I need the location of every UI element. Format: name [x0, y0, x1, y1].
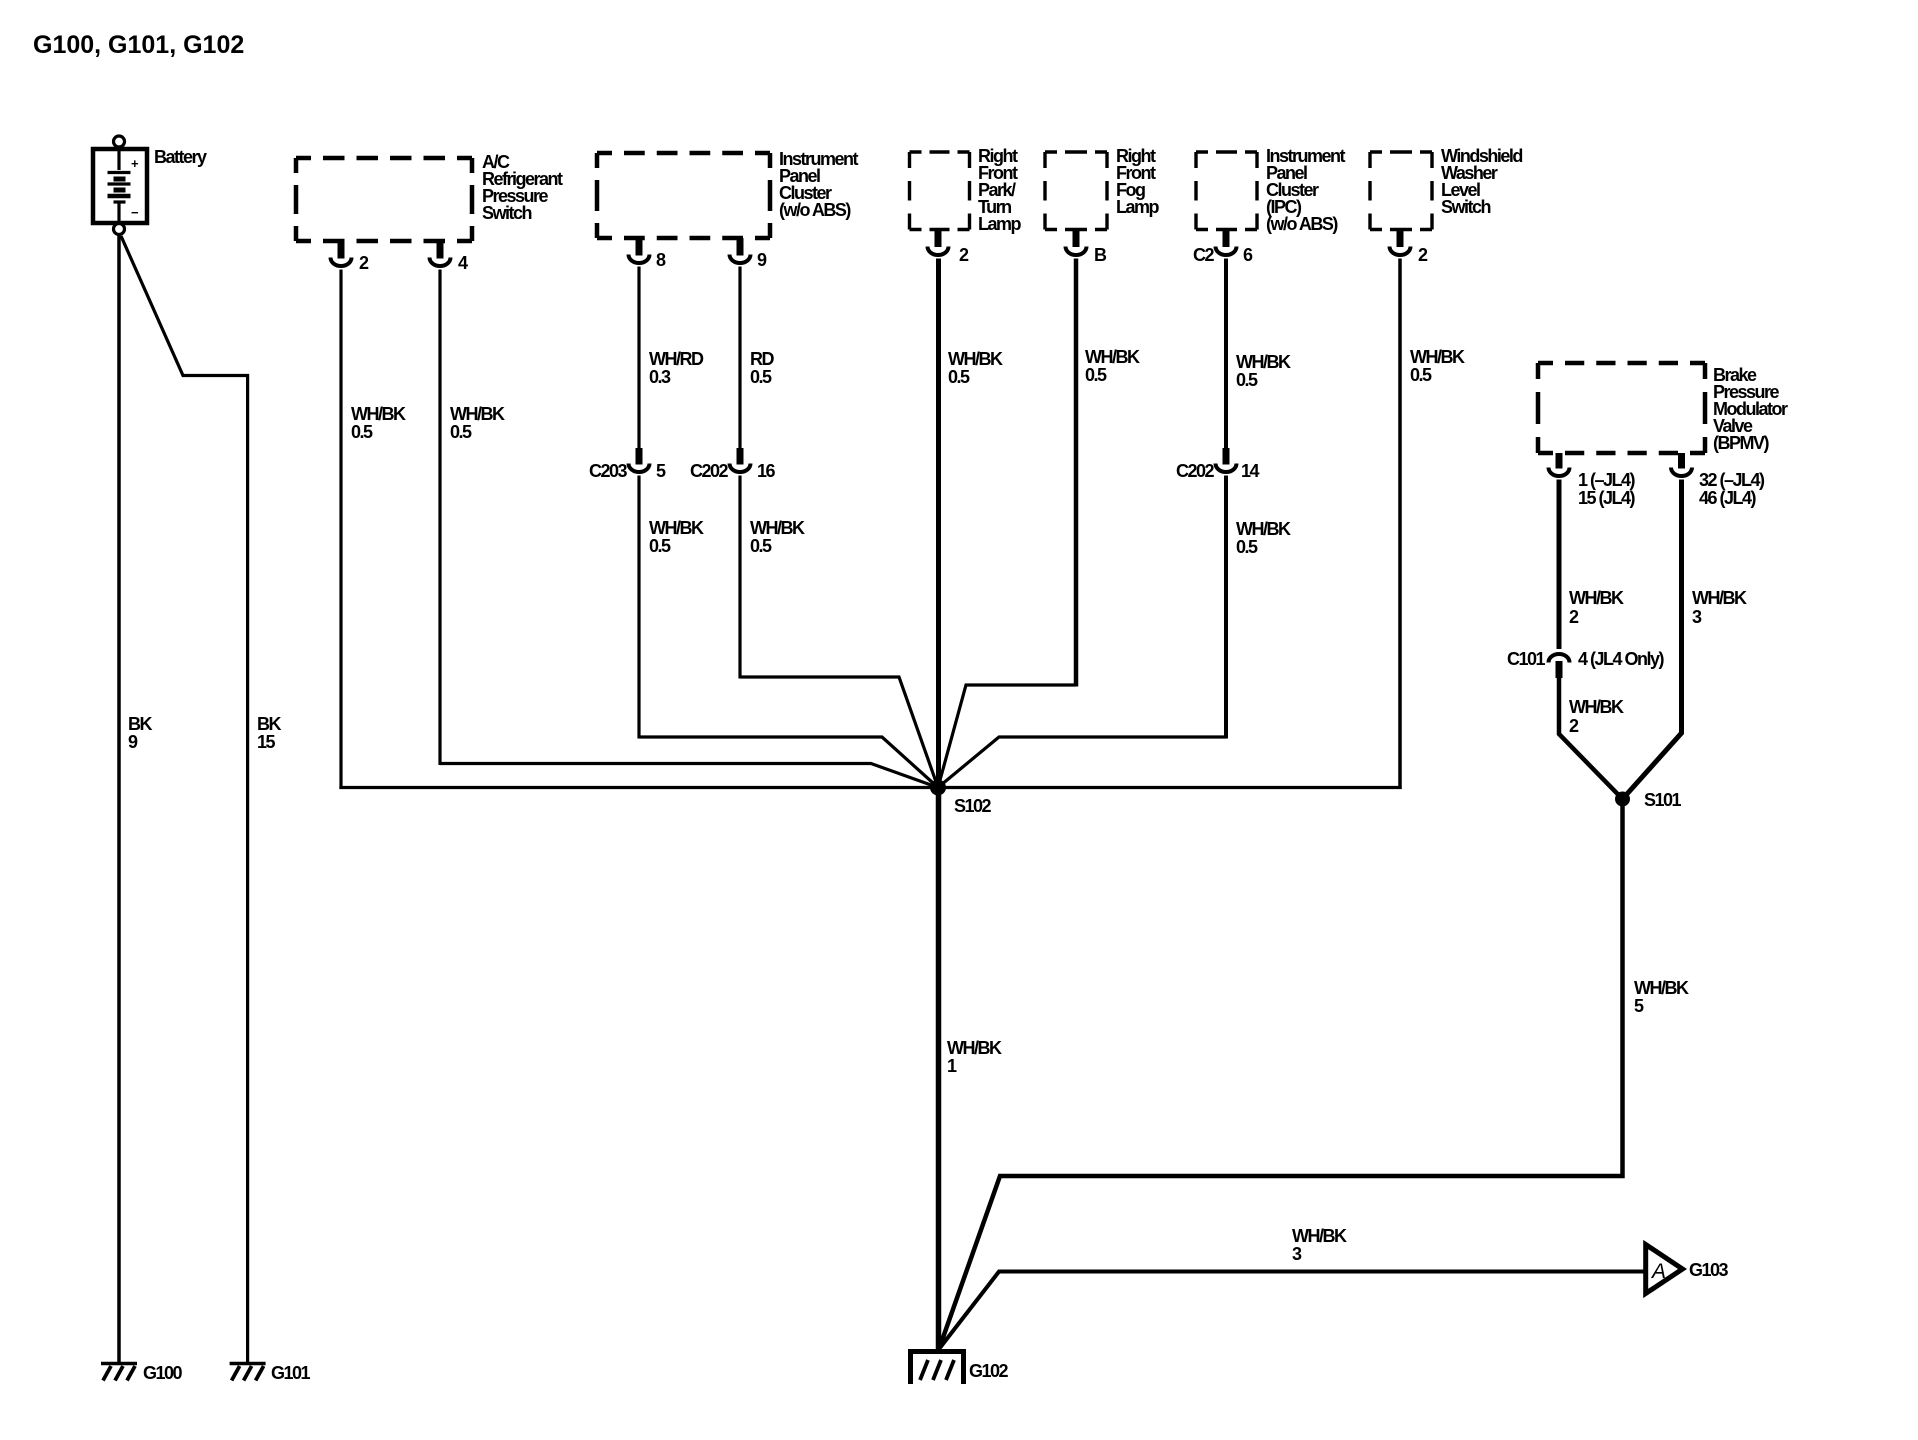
- connector C202 pin 16: [730, 448, 751, 472]
- label WH/BK 3: [1692, 588, 1747, 627]
- IPC pin 9: [730, 238, 751, 263]
- BPMV pin 1/15: [1549, 453, 1570, 476]
- windshield washer level switch box: [1370, 152, 1432, 230]
- label WH/BK 0.5: [750, 518, 805, 556]
- svg-text:0.5: 0.5: [649, 536, 671, 556]
- svg-text:0.5: 0.5: [450, 422, 472, 442]
- svg-text:C202: C202: [1176, 461, 1215, 481]
- svg-text:G102: G102: [969, 1361, 1009, 1381]
- svg-text:G100, G101, G102: G100, G101, G102: [33, 31, 244, 59]
- wire WH/BK 0.5 below C202-16: [738, 476, 741, 679]
- svg-text:WH/BK: WH/BK: [1692, 588, 1747, 608]
- svg-text:2: 2: [959, 245, 969, 265]
- pin label 32 (-JL4) 46 (JL4): [1699, 470, 1765, 508]
- label RD 0.5: [750, 349, 774, 387]
- wire A/C pin 2 horizontal into S102: [339, 786, 938, 789]
- svg-text:46 (JL4): 46 (JL4): [1699, 488, 1757, 508]
- svg-text:WH/RD: WH/RD: [649, 349, 704, 369]
- instrument panel cluster (IPC) box: [1196, 152, 1257, 230]
- svg-text:3: 3: [1692, 607, 1702, 627]
- wire A/C pin 4 into S102: [440, 764, 938, 788]
- svg-text:15: 15: [257, 732, 276, 752]
- off-page reference triangle A / G103: [1646, 1245, 1729, 1294]
- instrument panel cluster (w/o ABS) box: [597, 153, 770, 238]
- wire WH/BK 0.5 below C202-14: [1224, 476, 1228, 739]
- svg-text:0.5: 0.5: [1410, 365, 1432, 385]
- svg-text:WH/BK: WH/BK: [1569, 697, 1624, 717]
- svg-text:WH/BK: WH/BK: [649, 518, 704, 538]
- svg-text:2: 2: [359, 253, 369, 273]
- instrument panel cluster label: [779, 149, 859, 220]
- wire WH/BK 0.5 from park/turn pin 2 to S102: [936, 259, 941, 790]
- label WH/BK 2: [1569, 697, 1624, 736]
- wire WH/BK 0.5 from A/C pin 2: [339, 270, 342, 790]
- svg-text:0.5: 0.5: [1236, 370, 1258, 390]
- ground G102: [911, 1349, 1009, 1384]
- A/C pin 4: [430, 241, 451, 266]
- svg-text:0.3: 0.3: [649, 367, 671, 387]
- svg-text:A: A: [1650, 1260, 1665, 1283]
- svg-text:Battery: Battery: [154, 147, 207, 167]
- svg-text:WH/BK: WH/BK: [1569, 588, 1624, 608]
- pin label 1 (-JL4) 15 (JL4): [1578, 470, 1636, 508]
- wire RD 0.5 from IPC pin 9: [738, 267, 741, 449]
- fog lamp pin B: [1066, 230, 1087, 256]
- svg-text:5: 5: [656, 461, 666, 481]
- washer level switch label: [1441, 146, 1522, 217]
- svg-text:32 (–JL4): 32 (–JL4): [1699, 470, 1765, 490]
- label WH/BK 0.5: [649, 518, 704, 556]
- park/turn lamp label: [978, 146, 1022, 234]
- junction S101: [1615, 792, 1630, 807]
- wire WH/BK 0.5 from IPC C2-6: [1224, 259, 1228, 449]
- svg-text:Switch: Switch: [482, 203, 532, 223]
- svg-text:WH/BK: WH/BK: [1410, 347, 1465, 367]
- svg-text:Lamp: Lamp: [978, 214, 1022, 234]
- label WH/BK 0.5: [450, 404, 505, 442]
- svg-text:8: 8: [656, 250, 666, 270]
- IPC pin 8: [629, 238, 650, 263]
- svg-text:C2: C2: [1193, 245, 1214, 265]
- IPC (w/o ABS) label: [1266, 146, 1346, 234]
- svg-text:WH/BK: WH/BK: [948, 349, 1003, 369]
- svg-text:0.5: 0.5: [351, 422, 373, 442]
- A/C pin 2: [331, 241, 352, 266]
- svg-text:BK: BK: [128, 714, 152, 734]
- svg-text:C101: C101: [1507, 649, 1546, 669]
- svg-text:9: 9: [757, 250, 767, 270]
- wire BK 15 battery to G101: [121, 236, 248, 1363]
- label WH/BK 3: [1292, 1226, 1347, 1264]
- brake pressure modulator valve box: [1538, 363, 1705, 453]
- svg-text:WH/BK: WH/BK: [750, 518, 805, 538]
- label BK 9: [128, 714, 152, 752]
- svg-text:WH/BK: WH/BK: [1236, 519, 1291, 539]
- washer pin 2: [1390, 230, 1411, 256]
- svg-text:+: +: [131, 156, 139, 171]
- label BK 15: [257, 714, 281, 752]
- svg-text:0.5: 0.5: [750, 536, 772, 556]
- svg-text:WH/BK: WH/BK: [351, 404, 406, 424]
- svg-text:6: 6: [1243, 245, 1253, 265]
- label WH/BK 1: [947, 1038, 1002, 1076]
- svg-text:2: 2: [1569, 716, 1579, 736]
- wire WH/BK 2 from BPMV pin 1: [1557, 480, 1562, 650]
- svg-text:16: 16: [757, 461, 776, 481]
- svg-text:2: 2: [1418, 245, 1428, 265]
- wire WH/BK 2 from C101 to S101: [1559, 677, 1623, 799]
- svg-text:S102: S102: [954, 796, 992, 816]
- svg-text:WH/BK: WH/BK: [1236, 352, 1291, 372]
- A/C switch label: [482, 152, 563, 223]
- svg-text:WH/BK: WH/BK: [1292, 1226, 1347, 1246]
- svg-text:2: 2: [1569, 607, 1579, 627]
- svg-text:WH/BK: WH/BK: [1634, 978, 1689, 998]
- junction S102: [930, 780, 946, 796]
- wire WH/BK 0.5 from fog lamp pin B: [1074, 259, 1079, 687]
- wire C203-5 into S102: [639, 737, 938, 788]
- label WH/BK 0.5: [1410, 347, 1465, 385]
- wire C202-14 into S102: [938, 737, 1226, 788]
- label WH/BK 5: [1634, 978, 1689, 1016]
- svg-text:15 (JL4): 15 (JL4): [1578, 488, 1636, 508]
- svg-text:0.5: 0.5: [948, 367, 970, 387]
- label WH/BK 2: [1569, 588, 1624, 627]
- svg-text:RD: RD: [750, 349, 774, 369]
- wire WH/BK 0.5 from A/C pin 4: [438, 270, 441, 766]
- svg-text:0.5: 0.5: [1085, 365, 1107, 385]
- svg-text:B: B: [1094, 245, 1107, 265]
- wire WH/RD 0.3 from IPC pin 8: [637, 267, 640, 449]
- svg-text:5: 5: [1634, 996, 1644, 1016]
- svg-text:0.5: 0.5: [1236, 537, 1258, 557]
- svg-text:4 (JL4 Only): 4 (JL4 Only): [1578, 649, 1665, 669]
- ground G100: [101, 1363, 183, 1383]
- connector C101 pin 4: [1549, 654, 1570, 678]
- label WH/RD 0.3: [649, 349, 704, 387]
- wire WH/BK 5 from S101 to G102: [939, 799, 1623, 1349]
- svg-text:C202: C202: [690, 461, 729, 481]
- BPMV pin 32/46: [1671, 453, 1692, 476]
- wire fog lamp into S102: [938, 685, 1076, 788]
- svg-text:9: 9: [128, 732, 138, 752]
- A/C refrigerant pressure switch box: [296, 158, 472, 241]
- svg-text:−: −: [131, 205, 139, 220]
- svg-text:1 (–JL4): 1 (–JL4): [1578, 470, 1636, 490]
- wire C202-16 into S102: [740, 677, 938, 788]
- park/turn pin 2: [928, 230, 949, 256]
- svg-text:14: 14: [1241, 461, 1260, 481]
- svg-text:WH/BK: WH/BK: [450, 404, 505, 424]
- BPMV label: [1713, 365, 1788, 453]
- svg-text:(w/o ABS): (w/o ABS): [779, 200, 851, 220]
- wire WH/BK 1 from S102 to G102: [936, 788, 942, 1352]
- svg-text:(w/o ABS): (w/o ABS): [1266, 214, 1338, 234]
- svg-text:S101: S101: [1644, 790, 1682, 810]
- svg-text:G100: G100: [143, 1363, 183, 1383]
- svg-text:(BPMV): (BPMV): [1713, 433, 1769, 453]
- svg-text:G101: G101: [271, 1363, 311, 1383]
- label WH/BK 0.5: [1236, 352, 1291, 390]
- svg-text:0.5: 0.5: [750, 367, 772, 387]
- wire WH/BK 3 from BPMV pin 32 to S101: [1623, 480, 1682, 800]
- svg-text:Lamp: Lamp: [1116, 197, 1160, 217]
- right front park/turn lamp box: [910, 152, 970, 230]
- wire washer horizontal into S102: [938, 786, 1402, 789]
- svg-text:G103: G103: [1689, 1260, 1729, 1280]
- svg-text:WH/BK: WH/BK: [1085, 347, 1140, 367]
- connector C202 pin 14: [1216, 448, 1237, 472]
- wire WH/BK 0.5 below C203: [637, 476, 640, 739]
- label WH/BK 0.5: [948, 349, 1003, 387]
- label WH/BK 0.5: [1085, 347, 1140, 385]
- svg-text:C203: C203: [589, 461, 628, 481]
- wire WH/BK 3 from G102 to G103 triangle: [939, 1272, 1645, 1350]
- connector C203 pin 5: [629, 448, 650, 472]
- label WH/BK 0.5: [351, 404, 406, 442]
- svg-text:Switch: Switch: [1441, 197, 1491, 217]
- svg-text:WH/BK: WH/BK: [947, 1038, 1002, 1058]
- wire BK 9 battery to G100: [117, 235, 121, 1364]
- battery: [93, 136, 207, 235]
- right front fog lamp box: [1045, 152, 1107, 230]
- IPC pin C2-6: [1216, 230, 1237, 256]
- svg-text:4: 4: [458, 253, 468, 273]
- svg-text:3: 3: [1292, 1244, 1302, 1264]
- svg-text:1: 1: [947, 1056, 957, 1076]
- label WH/BK 0.5: [1236, 519, 1291, 557]
- wire WH/BK 0.5 from washer pin 2: [1398, 259, 1402, 790]
- ground G101: [230, 1363, 311, 1383]
- fog lamp label: [1116, 146, 1160, 217]
- svg-text:BK: BK: [257, 714, 281, 734]
